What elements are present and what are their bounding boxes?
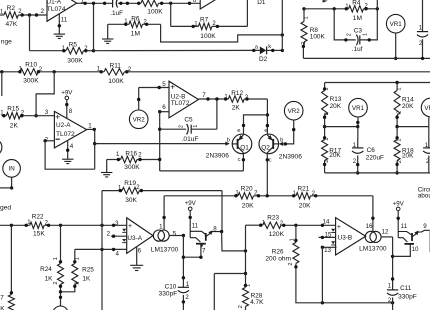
op-amp U1-A bbox=[47, 0, 77, 21]
junction rail pin13 bbox=[321, 301, 324, 304]
resistor R5 bbox=[66, 48, 84, 54]
junction IN node bbox=[10, 186, 13, 189]
resistor R18 bbox=[394, 140, 400, 161]
capacitor C1 .1uF bbox=[113, 0, 118, 8]
junction out b bbox=[215, 97, 218, 100]
wire R24 bottom bbox=[60, 285, 62, 307]
resistor R27 bbox=[8, 295, 14, 310]
ground U1-A pin11 bbox=[54, 34, 65, 38]
svg-text:+: + bbox=[170, 82, 175, 92]
svg-text:12: 12 bbox=[382, 229, 389, 236]
svg-text:1: 1 bbox=[75, 257, 81, 260]
junction pin3 node bbox=[34, 114, 37, 117]
wire Q2 collector bbox=[266, 154, 268, 196]
svg-text:.1uF: .1uF bbox=[110, 10, 123, 17]
junction out rail a bbox=[83, 2, 86, 5]
svg-text:2: 2 bbox=[178, 125, 184, 128]
junction pin3 stub bbox=[112, 224, 115, 227]
junction emitter split bbox=[266, 113, 269, 116]
svg-text:1: 1 bbox=[193, 125, 199, 128]
wire rail y71.8 b bbox=[38, 71, 104, 73]
svg-text:R21: R21 bbox=[298, 185, 310, 192]
svg-text:2: 2 bbox=[288, 262, 294, 265]
junction R16 pin1 bbox=[117, 158, 120, 161]
capacitor C4 bbox=[417, 32, 428, 37]
junction R8 top bbox=[302, 7, 305, 10]
svg-text:120K: 120K bbox=[269, 231, 285, 238]
wire pin10 jog bbox=[393, 244, 411, 257]
wire R23 link bbox=[246, 224, 261, 226]
resistor R11 bbox=[104, 69, 125, 75]
svg-text:R16: R16 bbox=[125, 150, 137, 157]
junction R7 pin2 bbox=[216, 25, 219, 28]
svg-text:4: 4 bbox=[70, 143, 74, 150]
junction R18 rail bbox=[395, 171, 398, 174]
svg-text:1: 1 bbox=[397, 87, 403, 90]
junction Q2 c stub bbox=[266, 158, 269, 161]
svg-text:14: 14 bbox=[323, 219, 330, 226]
junction node A bbox=[28, 13, 31, 16]
wire pin6 to Q1 c bbox=[160, 170, 244, 172]
wire U2-B out bbox=[199, 98, 229, 100]
junction pin4 stub a bbox=[112, 248, 115, 251]
resistor R8 bbox=[301, 22, 307, 43]
svg-text:1: 1 bbox=[396, 138, 402, 141]
wire R13 stem bbox=[324, 83, 326, 91]
wire R19 right bbox=[139, 190, 222, 192]
resistor R25 bbox=[72, 264, 78, 285]
junction R6 pin1 bbox=[124, 23, 127, 26]
diode D1 bbox=[323, 0, 328, 3]
capacitor C6 bbox=[352, 148, 363, 153]
junction R14 top bbox=[395, 81, 398, 84]
svg-text:TL072: TL072 bbox=[171, 100, 190, 107]
wire C7 bottom bbox=[428, 156, 430, 173]
junction fb node bbox=[92, 49, 95, 52]
output port bottom bbox=[53, 306, 68, 310]
svg-text:R22: R22 bbox=[32, 213, 44, 220]
ground R6 bbox=[102, 39, 113, 43]
svg-text:15K: 15K bbox=[33, 230, 45, 237]
svg-text:11: 11 bbox=[192, 223, 199, 230]
junction R13 R17 node bbox=[323, 125, 326, 128]
junction out a bbox=[206, 97, 209, 100]
transistor Q1 bbox=[232, 134, 252, 154]
wire U3-A out down bbox=[182, 236, 184, 288]
junction C10 bottom bbox=[182, 300, 185, 303]
svg-text:+9V: +9V bbox=[61, 89, 73, 96]
wire U1-A pin11 stem bbox=[58, 14, 60, 34]
svg-text:VR2: VR2 bbox=[133, 117, 146, 124]
junction pin14 stub bbox=[321, 224, 324, 227]
wire R7 tap down bbox=[170, 3, 172, 26]
resistor R12 bbox=[228, 96, 244, 102]
junction bias stem U3-A bbox=[162, 216, 165, 219]
svg-text:R10: R10 bbox=[25, 62, 37, 69]
wire R3 to U1-B bbox=[159, 2, 201, 4]
svg-text:1: 1 bbox=[245, 284, 251, 287]
diode glyph U3-B upper bbox=[331, 229, 335, 233]
svg-text:e: e bbox=[264, 128, 267, 134]
svg-text:200 ohm: 200 ohm bbox=[265, 256, 291, 263]
junction R18 pin1 bbox=[395, 136, 398, 139]
junction R28 pin1 bbox=[244, 284, 247, 287]
junction R24 join bbox=[59, 290, 62, 293]
junction D2 k node bbox=[281, 49, 284, 52]
junction VR1l stub bbox=[356, 121, 359, 124]
wire rail y58 bbox=[303, 57, 430, 59]
junction R13 pin1 bbox=[323, 87, 326, 90]
wire cap to R3 bbox=[118, 2, 141, 4]
junction rail left bbox=[0, 70, 3, 73]
svg-text:300K: 300K bbox=[124, 164, 140, 171]
wire R6 left bbox=[108, 23, 129, 25]
wire R2 input bbox=[0, 14, 4, 16]
svg-text:U3-B: U3-B bbox=[338, 235, 353, 242]
junction R17 pin2 bbox=[323, 163, 326, 166]
svg-text:100K: 100K bbox=[310, 34, 326, 41]
resistor R2 bbox=[4, 12, 18, 18]
svg-text:1: 1 bbox=[324, 87, 330, 90]
svg-text:1M: 1M bbox=[131, 30, 140, 37]
svg-text:.01uF: .01uF bbox=[182, 136, 199, 143]
wire R6 gnd stem bbox=[107, 24, 109, 39]
junction C3 left bbox=[344, 38, 347, 41]
junction R3 pin1 bbox=[137, 2, 140, 5]
wire U2-A out stub bbox=[87, 128, 95, 130]
junction R18 pin2 bbox=[395, 163, 398, 166]
svg-text:LM13700: LM13700 bbox=[359, 245, 387, 252]
wire left stub bbox=[1, 72, 3, 96]
svg-text:2: 2 bbox=[324, 160, 330, 163]
svg-text:1: 1 bbox=[290, 238, 296, 241]
svg-text:100K: 100K bbox=[108, 78, 124, 85]
junction cap out b bbox=[126, 2, 129, 5]
junction pin13 stub bbox=[321, 246, 324, 249]
svg-text:2: 2 bbox=[41, 8, 45, 15]
svg-text:20K: 20K bbox=[402, 103, 414, 110]
power +9V U2-A bbox=[61, 89, 73, 99]
wire Q2 base bbox=[283, 120, 294, 144]
junction R25 pin2 bbox=[73, 285, 76, 288]
arrow Q1 base bbox=[225, 142, 229, 146]
junction R10 pin2 bbox=[37, 70, 40, 73]
junction rail C11 bbox=[391, 301, 394, 304]
junction out rail c bbox=[103, 2, 106, 5]
potentiometer VR2 lower bbox=[284, 101, 303, 120]
wire R16 left bbox=[107, 159, 121, 161]
diode glyph U3-A lower bbox=[122, 239, 126, 243]
arrow Q2 base bbox=[279, 142, 283, 146]
svg-text:C11: C11 bbox=[400, 285, 412, 292]
wire jog R14 C7 bbox=[397, 126, 429, 128]
wire U3-B pin13 stub bbox=[322, 246, 336, 248]
svg-text:R19: R19 bbox=[124, 180, 136, 187]
svg-text:1: 1 bbox=[363, 33, 369, 36]
junction out y256 bbox=[391, 255, 394, 258]
svg-text:20K: 20K bbox=[329, 152, 341, 159]
wire VR1 top stem bbox=[395, 33, 397, 58]
wire buffer jog bbox=[183, 244, 201, 257]
junction pin6 bbox=[158, 110, 161, 113]
svg-text:2: 2 bbox=[301, 42, 307, 45]
op-amp U2-A bbox=[54, 111, 86, 147]
svg-text:220uF: 220uF bbox=[366, 154, 384, 161]
svg-text:R12: R12 bbox=[231, 90, 243, 97]
svg-text:+9V: +9V bbox=[185, 200, 197, 207]
junction R4 pin2 bbox=[364, 7, 367, 10]
wire R25 top bbox=[74, 249, 76, 263]
wire x214 down bbox=[213, 274, 215, 310]
wire R24 top bbox=[60, 225, 62, 263]
svg-text:7: 7 bbox=[202, 92, 206, 99]
wire R19 down bbox=[221, 191, 223, 232]
potentiometer VR2 upper bbox=[129, 110, 148, 129]
wire R7 row left bbox=[171, 25, 199, 27]
svg-text:6: 6 bbox=[193, 0, 197, 4]
junction R8 bottom bbox=[302, 45, 305, 48]
junction base tee bbox=[93, 142, 96, 145]
capacitor C5 bbox=[187, 124, 192, 135]
junction pin2 node bbox=[43, 139, 46, 142]
wire R23 to pin14 bbox=[281, 224, 336, 226]
wire R12 out bbox=[244, 98, 267, 100]
svg-text:about: about bbox=[418, 193, 430, 200]
svg-text:1K: 1K bbox=[82, 276, 91, 283]
junction R20 pin2 bbox=[257, 194, 260, 197]
junction C5 left bbox=[158, 128, 161, 131]
junction Q2 c rail bbox=[266, 194, 269, 197]
transistor buffer U3-B bbox=[398, 211, 430, 244]
wire node net bbox=[245, 225, 247, 285]
wire U3-A bias stem bbox=[163, 196, 165, 230]
junction R14 R18 node bbox=[395, 125, 398, 128]
svg-text:R4: R4 bbox=[352, 0, 361, 6]
wire bias rail b bbox=[254, 195, 297, 197]
svg-text:300K: 300K bbox=[67, 58, 83, 65]
wire D2 cathode bbox=[267, 49, 283, 51]
svg-text:R15: R15 bbox=[7, 106, 19, 113]
junction out rail b bbox=[92, 2, 95, 5]
svg-text:3: 3 bbox=[45, 109, 49, 116]
svg-text:47K: 47K bbox=[6, 21, 18, 28]
junction R21 pin1 bbox=[292, 194, 295, 197]
svg-text:2N3906: 2N3906 bbox=[206, 152, 229, 159]
junction VR2l stem bbox=[292, 128, 295, 131]
junction rail R4 a bbox=[333, 7, 336, 10]
junction D2 anode bbox=[252, 49, 255, 52]
resistor R13 bbox=[322, 91, 328, 116]
svg-text:VR2: VR2 bbox=[288, 108, 301, 115]
resistor R16 bbox=[121, 156, 138, 162]
svg-text:5: 5 bbox=[162, 81, 166, 88]
resistor R24 bbox=[58, 264, 64, 285]
wire +9V stem U2-A bbox=[66, 100, 68, 119]
wire IN left bbox=[0, 187, 12, 189]
junction node 8 bbox=[220, 230, 223, 233]
resistor R21 bbox=[296, 193, 311, 199]
wire node 9 edge bbox=[429, 230, 430, 252]
wire U1-A output rail bbox=[77, 2, 113, 4]
wire R15 left bbox=[2, 115, 7, 117]
potentiometer VR right edge bbox=[421, 98, 430, 117]
svg-text:1: 1 bbox=[88, 123, 92, 130]
wire node8 down bbox=[222, 232, 246, 251]
wire C10 bottom bbox=[182, 295, 184, 310]
junction R11 pin1 bbox=[100, 70, 103, 73]
junction R13 pin2 bbox=[323, 116, 326, 119]
wire R26 bottom bbox=[296, 263, 393, 302]
wire C3 right stem bbox=[360, 0, 378, 40]
svg-text:D2: D2 bbox=[259, 56, 268, 63]
svg-text:6: 6 bbox=[162, 104, 166, 111]
wire pin6 chain down bbox=[159, 112, 161, 171]
junction R27 pin1 bbox=[10, 291, 13, 294]
resistor R4 bbox=[349, 6, 364, 12]
junction buffer stem dot bbox=[189, 216, 192, 219]
svg-text:1: 1 bbox=[324, 138, 330, 141]
wire y273 jog bbox=[214, 273, 245, 275]
junction R16 node bbox=[158, 158, 161, 161]
capacitor C10 bbox=[178, 287, 189, 292]
svg-text:e: e bbox=[237, 128, 240, 134]
junction R14 pin2 bbox=[395, 116, 398, 119]
junction pin4 stem bbox=[66, 149, 69, 152]
junction pin15 stub bbox=[321, 236, 324, 239]
wire C5 up bbox=[216, 99, 218, 129]
svg-text:b: b bbox=[227, 138, 230, 144]
resistor R7 bbox=[198, 23, 212, 29]
junction U1-B in bbox=[188, 2, 191, 5]
junction C6 stub bbox=[356, 163, 359, 166]
junction D2 node top bbox=[281, 33, 284, 36]
junction pin2 stub U3-A bbox=[112, 235, 115, 238]
resistor R6 bbox=[129, 21, 143, 27]
junction Q2 e stub bbox=[266, 124, 269, 127]
wire U2-A fb bbox=[45, 141, 95, 169]
junction R17 pin1 bbox=[323, 136, 326, 139]
svg-text:nge: nge bbox=[1, 38, 12, 45]
svg-text:.1uf: .1uf bbox=[352, 46, 363, 53]
op-amp U2-B bbox=[169, 81, 199, 118]
OTA U3-A bbox=[127, 218, 153, 254]
wire bias rail bbox=[164, 195, 238, 197]
junction Q2 base stub bbox=[284, 142, 287, 145]
junction R5 pin2 bbox=[84, 49, 87, 52]
wire step to pin3 bbox=[36, 72, 54, 116]
resistor R20 bbox=[238, 193, 254, 199]
resistor R28 bbox=[243, 287, 249, 306]
capacitor C7 bbox=[423, 148, 430, 153]
wire R7 to U1-B out bbox=[246, 0, 248, 26]
junction R5 pin1 bbox=[62, 49, 65, 52]
svg-text:330pF: 330pF bbox=[398, 293, 417, 300]
svg-text:300K: 300K bbox=[23, 78, 39, 85]
junction out y257 bbox=[182, 256, 185, 259]
wire R14 stem bbox=[396, 83, 398, 91]
junction R23 pin2 bbox=[282, 224, 285, 227]
wire U3-A output bbox=[169, 235, 183, 237]
junction D2 k stub bbox=[271, 49, 274, 52]
junction R15 pin2 bbox=[20, 114, 23, 117]
junction R23 pin1 bbox=[259, 224, 262, 227]
svg-text:+9V: +9V bbox=[393, 200, 405, 207]
svg-text:VR1: VR1 bbox=[352, 105, 365, 112]
junction R26 top bbox=[294, 224, 297, 227]
wire VR1l stem bbox=[357, 117, 359, 148]
wire R28 bottom bbox=[245, 307, 247, 310]
svg-text:R24: R24 bbox=[40, 266, 52, 273]
svg-text:8: 8 bbox=[213, 225, 217, 232]
svg-text:+: + bbox=[337, 224, 341, 231]
junction rail R27 bbox=[10, 224, 13, 227]
wire rail R4 bbox=[304, 8, 349, 10]
wire U3-B output bbox=[381, 236, 393, 238]
transistor buffer U3-A bbox=[190, 211, 221, 244]
OTA U3-B bbox=[336, 218, 366, 255]
svg-text:U2-A: U2-A bbox=[56, 122, 71, 129]
diode D2 bbox=[260, 47, 267, 55]
junction cap out bbox=[119, 2, 122, 5]
resistor R26 bbox=[293, 242, 299, 263]
svg-text:6: 6 bbox=[138, 247, 142, 254]
wire U3-B bias stem bbox=[372, 196, 374, 232]
junction VR2 stem bbox=[137, 98, 140, 101]
power +9V U3-B bbox=[393, 200, 405, 210]
svg-text:16: 16 bbox=[366, 223, 373, 230]
svg-text:2: 2 bbox=[238, 305, 244, 308]
svg-text:1M: 1M bbox=[353, 15, 362, 22]
wire U3-B pin15 stub bbox=[319, 236, 336, 238]
junction R4 pin1 bbox=[345, 7, 348, 10]
resistor R17 bbox=[322, 140, 328, 161]
junction R25 pin1 bbox=[73, 260, 76, 263]
svg-text:U1-A: U1-A bbox=[47, 0, 62, 5]
junction R16 pin2 bbox=[138, 158, 141, 161]
wire rail y172.9 bbox=[325, 172, 430, 174]
svg-text:k: k bbox=[268, 44, 271, 50]
wire C6 bottom bbox=[357, 156, 359, 173]
wire rail y71.8 bbox=[0, 71, 20, 73]
svg-text:2: 2 bbox=[107, 231, 111, 238]
junction buffer pin7 bbox=[199, 256, 202, 259]
wire C5 row bbox=[160, 128, 187, 130]
wire U2-B pin6 bbox=[160, 111, 169, 113]
wire pin13 down bbox=[321, 247, 323, 302]
svg-text:R26: R26 bbox=[272, 249, 284, 256]
wire emitter jog bbox=[244, 115, 268, 134]
svg-text:10: 10 bbox=[412, 246, 419, 253]
junction rail R24 bbox=[59, 224, 62, 227]
svg-text:LM13700: LM13700 bbox=[151, 247, 179, 254]
op-amp U2-A minus bbox=[56, 138, 60, 140]
svg-text:R11: R11 bbox=[110, 62, 122, 69]
svg-text:R23: R23 bbox=[267, 215, 279, 222]
wire R5 row bbox=[30, 50, 67, 52]
junction R12 pin1 bbox=[224, 97, 227, 100]
svg-text:2: 2 bbox=[74, 282, 80, 285]
junction R3 pin2 bbox=[160, 2, 163, 5]
svg-text:1K: 1K bbox=[45, 275, 54, 282]
wire R6 step bbox=[161, 24, 283, 42]
svg-text:2K: 2K bbox=[10, 123, 19, 130]
wire node A down bbox=[29, 15, 31, 51]
svg-text:VR: VR bbox=[424, 105, 430, 112]
transistor Q2 bbox=[259, 134, 279, 154]
wire R16 gnd stem bbox=[106, 160, 108, 173]
junction U3-A out corner bbox=[182, 234, 185, 237]
svg-text:+: + bbox=[55, 111, 60, 121]
